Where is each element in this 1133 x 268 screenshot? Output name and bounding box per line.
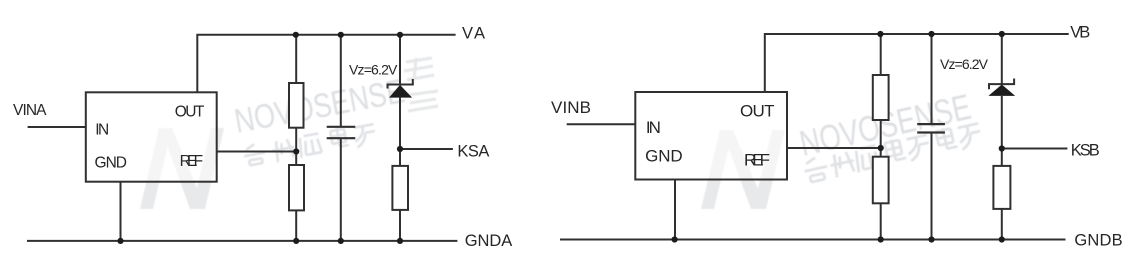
svg-text:KSB: KSB — [1071, 142, 1100, 160]
svg-text:Vz=6.2V: Vz=6.2V — [940, 56, 989, 72]
svg-text:GND: GND — [95, 155, 128, 172]
svg-text:IN: IN — [95, 121, 109, 138]
svg-text:KSA: KSA — [457, 143, 489, 161]
svg-text:GNDB: GNDB — [1074, 232, 1122, 250]
svg-text:Vz=6.2V: Vz=6.2V — [349, 61, 398, 77]
svg-text:VA: VA — [462, 24, 485, 42]
svg-text:GND: GND — [645, 147, 683, 166]
svg-text:VB: VB — [1070, 24, 1090, 42]
svg-text:VINB: VINB — [551, 98, 591, 117]
svg-text:OUT: OUT — [175, 104, 205, 121]
svg-text:VINA: VINA — [13, 102, 47, 119]
svg-text:REF: REF — [180, 153, 204, 170]
svg-text:IN: IN — [646, 118, 661, 137]
svg-text:REF: REF — [744, 151, 770, 170]
svg-text:OUT: OUT — [740, 101, 775, 120]
svg-text:GNDA: GNDA — [465, 232, 513, 250]
